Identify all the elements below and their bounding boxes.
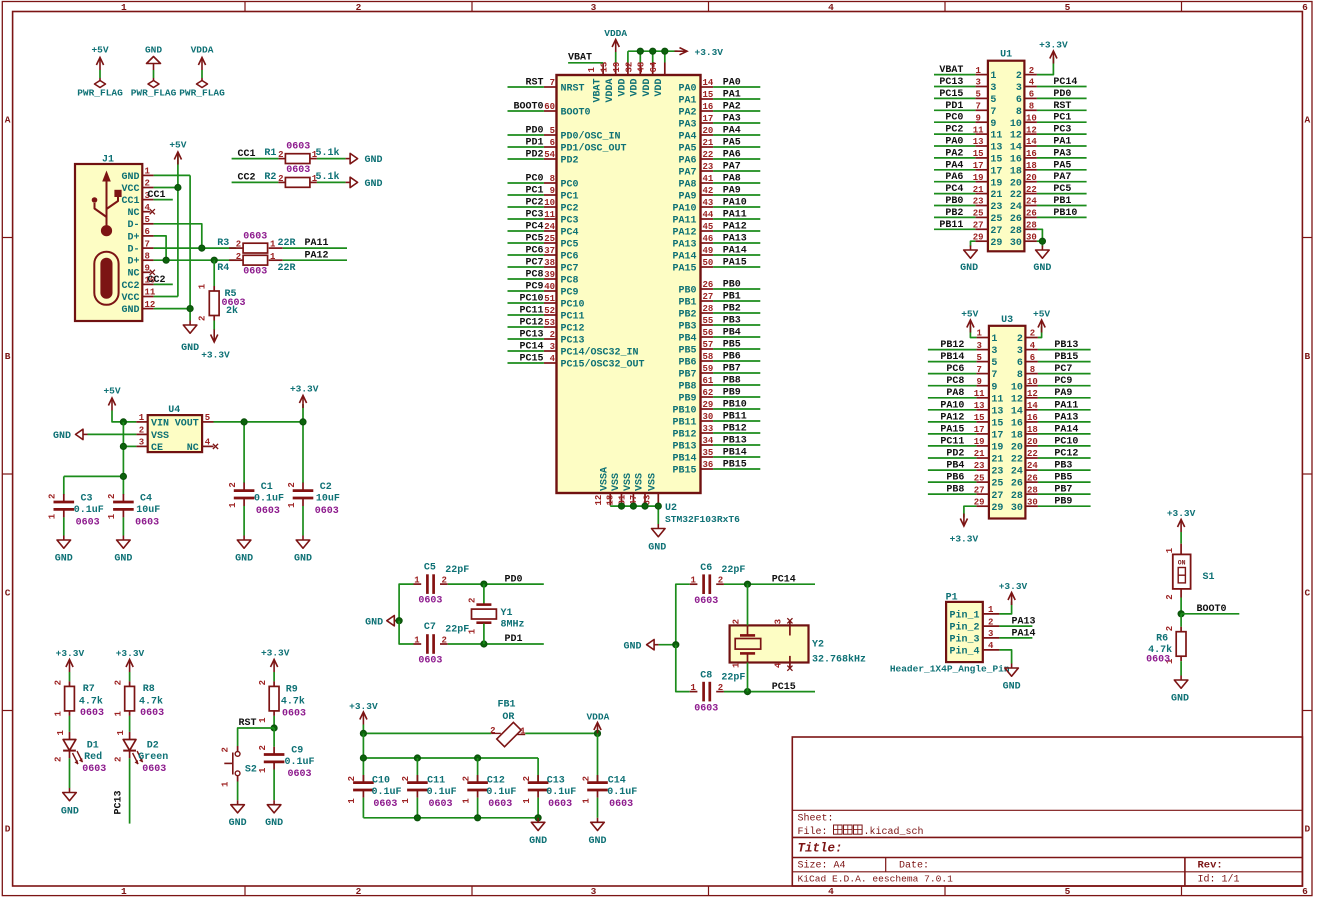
svg-text:1: 1 <box>461 798 471 804</box>
svg-text:10uF: 10uF <box>316 494 340 505</box>
wire PB12 <box>713 432 760 434</box>
svg-text:B: B <box>1304 351 1310 362</box>
svg-text:CC2: CC2 <box>121 281 139 292</box>
svg-text:2: 2 <box>468 598 478 603</box>
svg-text:0603: 0603 <box>80 708 104 719</box>
svg-text:1: 1 <box>56 730 66 736</box>
svg-text:VIN: VIN <box>151 418 169 429</box>
junction PD1 Y1 <box>481 641 487 647</box>
junction rail3 C12 <box>475 815 481 821</box>
svg-text:OR: OR <box>502 712 514 723</box>
wire C6 left to GND rail <box>676 584 690 645</box>
svg-text:GND: GND <box>1171 694 1189 705</box>
svg-text:2: 2 <box>718 576 723 586</box>
ground below C13 <box>529 818 547 847</box>
wire PC10 to U3 <box>1038 445 1091 447</box>
resistor R3 22R <box>217 232 295 253</box>
connector U1 <box>988 50 1025 252</box>
svg-text:PC14: PC14 <box>1053 77 1077 88</box>
svg-text:+3.3V: +3.3V <box>116 648 145 659</box>
U1 row 1 pins 1/2 <box>975 66 1037 82</box>
svg-text:VOUT: VOUT <box>175 418 199 429</box>
svg-text:9: 9 <box>991 382 997 393</box>
svg-text:R2: R2 <box>264 172 276 183</box>
wire PC13 to U1 <box>934 86 975 88</box>
wire PB9 to U3 <box>1038 505 1091 507</box>
svg-text:PA10: PA10 <box>672 204 696 215</box>
svg-text:PB2: PB2 <box>945 208 963 219</box>
svg-text:PC2: PC2 <box>561 204 579 215</box>
svg-text:3: 3 <box>1017 346 1023 357</box>
wire PA7 <box>713 170 760 172</box>
svg-text:10uF: 10uF <box>136 505 160 516</box>
ground below U2 <box>648 524 666 554</box>
U2 pin 5 (PD0/OSC_IN) <box>544 126 621 142</box>
svg-text:1: 1 <box>121 2 127 13</box>
U2 pin 27 (PB1) <box>678 292 713 308</box>
svg-text:22: 22 <box>703 150 714 160</box>
svg-text:S1: S1 <box>1203 572 1215 583</box>
wire RST to U2 <box>508 86 544 88</box>
capacitor C3 0.1uF <box>48 493 104 528</box>
wire PC15 to U1 <box>934 97 975 99</box>
junction D- row <box>199 245 205 251</box>
svg-text:0603: 0603 <box>286 141 310 152</box>
svg-text:PB9: PB9 <box>678 394 696 405</box>
svg-text:19: 19 <box>990 178 1002 189</box>
svg-text:PWR_FLAG: PWR_FLAG <box>131 88 177 99</box>
svg-text:18: 18 <box>1026 161 1037 171</box>
svg-text:4.7k: 4.7k <box>281 696 305 708</box>
wire GND arrow to junction <box>659 644 676 646</box>
power +3.3V at U1 <box>1039 40 1068 64</box>
U2 pin 60 (BOOT0) <box>544 102 591 118</box>
wire PD2 to U2 <box>508 158 544 160</box>
U2 pin 49 (PA14) <box>672 246 713 262</box>
svg-text:5: 5 <box>991 358 997 369</box>
wire S1 to BOOT0 junction <box>1180 598 1182 614</box>
U2 pin 55 (PB3) <box>678 316 713 332</box>
svg-text:+3.3V: +3.3V <box>999 581 1028 592</box>
svg-text:PB12: PB12 <box>940 340 964 351</box>
svg-text:C7: C7 <box>424 622 436 633</box>
svg-text:D2: D2 <box>147 740 159 751</box>
svg-text:9: 9 <box>145 264 150 274</box>
wire C6 to PC14 <box>724 583 815 585</box>
svg-text:GND: GND <box>960 263 978 274</box>
svg-text:7: 7 <box>976 365 981 375</box>
svg-text:VDDA: VDDA <box>605 79 616 103</box>
ground below D1 <box>61 788 79 818</box>
svg-text:2: 2 <box>988 617 993 627</box>
svg-text:1: 1 <box>347 798 357 804</box>
svg-text:1: 1 <box>731 662 741 668</box>
svg-text:26: 26 <box>703 280 714 290</box>
svg-text:1: 1 <box>990 71 996 82</box>
svg-text:CC1: CC1 <box>121 196 139 207</box>
svg-text:2: 2 <box>1030 329 1035 339</box>
junction VDD 32 <box>637 48 643 54</box>
U1 row 5 pins 9/10 <box>975 113 1037 129</box>
wire top rail to FB1 <box>363 732 491 734</box>
svg-text:PA14: PA14 <box>1054 424 1078 435</box>
wire PA11 <box>713 218 760 220</box>
U2 top pin 19 (VDD) <box>612 62 628 97</box>
U3 row 3 pins 5/6 <box>976 353 1038 369</box>
svg-text:20: 20 <box>1027 437 1038 447</box>
wire PB7 <box>713 372 760 374</box>
capacitor C5 22pF <box>414 562 470 606</box>
svg-text:CC1: CC1 <box>238 149 256 160</box>
wire PC6 to U3 <box>928 373 977 375</box>
U2 pin 41 (PA8) <box>678 174 713 190</box>
svg-text:4: 4 <box>205 438 211 448</box>
svg-text:PA8: PA8 <box>678 180 696 191</box>
U2 pin 33 (PB12) <box>672 424 713 440</box>
wire bottom rail <box>363 798 538 818</box>
U1 row 8 pins 15/16 <box>973 149 1037 165</box>
svg-text:27: 27 <box>991 491 1003 502</box>
svg-text:PA2: PA2 <box>678 108 696 119</box>
wire PC1 to U2 <box>508 194 544 196</box>
power +3.3V above R9 <box>261 648 290 673</box>
svg-text:PA11: PA11 <box>1054 400 1078 411</box>
junction U4 VIN branch <box>120 419 126 425</box>
svg-text:PB5: PB5 <box>678 346 696 357</box>
svg-text:VSS: VSS <box>611 473 622 491</box>
svg-text:2: 2 <box>401 776 411 781</box>
svg-text:GND: GND <box>53 431 71 442</box>
svg-text:14: 14 <box>1027 401 1038 411</box>
ground below U1 left <box>960 246 978 275</box>
svg-text:2: 2 <box>581 776 591 781</box>
svg-text:29: 29 <box>991 503 1003 514</box>
svg-text:3: 3 <box>1016 83 1022 94</box>
svg-text:R8: R8 <box>143 684 155 695</box>
wire PA11 to U3 <box>1038 409 1091 411</box>
svg-text:46: 46 <box>703 234 714 244</box>
svg-text:34: 34 <box>703 436 714 446</box>
svg-text:20: 20 <box>703 126 714 136</box>
wire PD1 to U1 <box>934 109 975 111</box>
wire C14 to GND <box>597 798 599 818</box>
svg-text:21: 21 <box>703 138 714 148</box>
wire C11 C12 top leads <box>417 758 477 783</box>
svg-text:PC9: PC9 <box>525 282 543 293</box>
svg-text:2: 2 <box>107 494 117 499</box>
svg-text:PC13: PC13 <box>561 336 585 347</box>
svg-text:PC8: PC8 <box>946 376 964 387</box>
svg-text:Size: A4: Size: A4 <box>798 859 846 871</box>
svg-text:1: 1 <box>48 513 58 519</box>
U2 pin 44 (PA11) <box>672 210 713 226</box>
svg-text:PB10: PB10 <box>723 400 747 411</box>
junction C2 top <box>300 419 306 425</box>
svg-text:PB14: PB14 <box>672 454 696 465</box>
svg-text:PB12: PB12 <box>723 424 747 435</box>
svg-text:ON: ON <box>1178 559 1186 566</box>
svg-text:10: 10 <box>1026 113 1037 123</box>
svg-text:8MHz: 8MHz <box>501 620 525 631</box>
svg-text:PB6: PB6 <box>723 352 741 363</box>
svg-text:0603: 0603 <box>243 232 267 243</box>
junction PC14 Y2 <box>744 581 750 587</box>
svg-text:PB7: PB7 <box>723 364 741 375</box>
svg-text:CE: CE <box>151 443 163 454</box>
wire PA1 <box>713 98 760 100</box>
wire PC1 to U1 <box>1037 121 1087 123</box>
wire PA2 to U1 <box>934 157 975 159</box>
svg-text:12: 12 <box>1011 394 1023 405</box>
svg-text:PC10: PC10 <box>1054 436 1078 447</box>
svg-text:PA15: PA15 <box>672 264 696 275</box>
svg-text:7: 7 <box>145 239 150 249</box>
svg-text:PB13: PB13 <box>672 442 696 453</box>
svg-text:BOOT0: BOOT0 <box>561 108 591 119</box>
svg-text:3: 3 <box>139 438 144 448</box>
svg-text:7: 7 <box>991 370 997 381</box>
svg-text:PB13: PB13 <box>723 436 747 447</box>
svg-text:VCC: VCC <box>121 184 139 195</box>
svg-text:20: 20 <box>1011 443 1023 454</box>
svg-text:+5V: +5V <box>103 386 120 397</box>
svg-text:16: 16 <box>703 102 714 112</box>
U2 pin 29 (PB10) <box>672 400 713 416</box>
U2 top pin 32 (VDD) <box>624 62 640 97</box>
U2 pin 54 (PD2) <box>544 150 579 166</box>
svg-text:PC14/OSC32_IN: PC14/OSC32_IN <box>561 347 639 359</box>
wire J1 GND rail (line B) <box>154 175 191 320</box>
svg-text:9: 9 <box>976 377 981 387</box>
U2 pin 9 (PC1) <box>544 186 579 202</box>
svg-text:VSS: VSS <box>623 473 634 491</box>
power +3.3V below R5 <box>201 330 230 361</box>
U2 pin 42 (PA9) <box>678 186 713 202</box>
svg-text:5: 5 <box>550 126 555 136</box>
svg-text:0603: 0603 <box>694 703 718 714</box>
svg-text:CC2: CC2 <box>148 275 166 286</box>
svg-text:0.1uF: 0.1uF <box>284 757 314 768</box>
power +3.3V below U3 <box>950 514 979 545</box>
wire PA12 to U3 <box>928 421 977 423</box>
ground below P1 <box>1003 664 1021 693</box>
wire PC0 to U1 <box>934 121 975 123</box>
svg-text:PC7: PC7 <box>525 258 543 269</box>
resistor R5 2k <box>198 283 246 321</box>
junction RST <box>271 725 277 731</box>
svg-text:PA14: PA14 <box>672 252 696 263</box>
svg-text:6: 6 <box>1030 353 1035 363</box>
svg-text:PD2: PD2 <box>525 150 543 161</box>
wire PA14 to U3 <box>1038 433 1091 435</box>
svg-text:PC4: PC4 <box>945 184 963 195</box>
title block frame <box>792 737 1302 886</box>
svg-text:PC15: PC15 <box>519 354 543 365</box>
svg-text:Title:: Title: <box>798 842 843 856</box>
svg-text:8: 8 <box>1029 102 1034 112</box>
U3 row 12 pins 23/24 <box>974 461 1039 478</box>
svg-text:25: 25 <box>544 234 555 244</box>
svg-text:PD0/OSC_IN: PD0/OSC_IN <box>561 131 621 143</box>
svg-text:0603: 0603 <box>418 596 442 607</box>
svg-text:30: 30 <box>703 412 714 422</box>
svg-text:NC: NC <box>187 443 199 454</box>
wire PB13 <box>713 444 760 446</box>
svg-text:59: 59 <box>703 364 714 374</box>
svg-text:2: 2 <box>258 680 268 685</box>
svg-text:NC: NC <box>127 208 139 219</box>
svg-text:PC1: PC1 <box>525 186 543 197</box>
U3 row 7 pins 13/14 <box>974 401 1039 417</box>
svg-text:18: 18 <box>1011 431 1023 442</box>
svg-text:1: 1 <box>258 767 268 773</box>
wire PB0 to U1 <box>934 205 975 207</box>
svg-text:1: 1 <box>988 605 994 615</box>
svg-text:GND: GND <box>121 305 139 316</box>
svg-text:41: 41 <box>703 174 714 184</box>
U2 pin 7 (NRST) <box>544 78 585 94</box>
J1 pin 6 (D+) <box>127 227 153 243</box>
ground at J1 <box>181 321 199 355</box>
svg-text:PD1/OSC_OUT: PD1/OSC_OUT <box>561 143 627 155</box>
svg-text:PD1: PD1 <box>525 138 543 149</box>
svg-text:VDDA: VDDA <box>586 712 609 723</box>
svg-text:7: 7 <box>975 102 980 112</box>
wire PC4 to U2 <box>508 230 544 232</box>
svg-text:+3.3V: +3.3V <box>261 648 290 659</box>
svg-text:16: 16 <box>1026 149 1037 159</box>
svg-text:1: 1 <box>975 66 981 76</box>
svg-text:28: 28 <box>1011 491 1023 502</box>
capacitor C7 22pF <box>414 622 470 666</box>
junction top rail C10 <box>360 730 366 736</box>
svg-text:PB4: PB4 <box>678 334 696 345</box>
U3 row 14 pins 27/28 <box>974 485 1038 502</box>
svg-text:2: 2 <box>356 886 362 897</box>
svg-text:CC1: CC1 <box>148 190 166 201</box>
connector U3 <box>989 315 1026 519</box>
svg-text:C12: C12 <box>487 775 505 786</box>
svg-text:1: 1 <box>198 283 208 289</box>
svg-text:PB2: PB2 <box>678 310 696 321</box>
svg-text:11: 11 <box>990 131 1002 142</box>
svg-text:PA4: PA4 <box>945 160 963 171</box>
svg-text:NRST: NRST <box>561 84 585 95</box>
U2 pin 21 (PA5) <box>678 138 713 154</box>
wire R7 to D1 <box>69 716 71 732</box>
svg-text:GND: GND <box>588 836 606 847</box>
svg-text:7: 7 <box>990 107 996 118</box>
U2 pin 36 (PB15) <box>672 460 713 476</box>
wire U3 pin29 to +3.3V <box>964 506 977 517</box>
svg-text:22: 22 <box>1011 455 1023 466</box>
svg-text:+5V: +5V <box>961 309 978 320</box>
svg-text:2: 2 <box>442 636 447 646</box>
wire C7 to PD1 <box>448 643 544 645</box>
U2 pin 14 (PA0) <box>678 78 713 94</box>
junction D+ R5 branch <box>211 257 217 263</box>
svg-text:R9: R9 <box>286 685 298 696</box>
svg-text:PC9: PC9 <box>1054 376 1072 387</box>
svg-text:10: 10 <box>1027 377 1038 387</box>
svg-text:PA3: PA3 <box>1053 148 1071 159</box>
wire C4 to GND <box>122 517 124 535</box>
wire PC5 to U1 <box>1037 193 1087 195</box>
capacitor C10 0.1uF <box>347 775 401 810</box>
svg-text:GND: GND <box>623 641 641 652</box>
svg-text:C14: C14 <box>608 775 626 786</box>
svg-text:VSS: VSS <box>634 473 645 491</box>
svg-text:C4: C4 <box>140 493 152 504</box>
svg-text:R1: R1 <box>264 148 276 159</box>
svg-text:GND: GND <box>229 818 247 829</box>
U2 pin 37 (PC6) <box>544 246 579 262</box>
svg-text:43: 43 <box>703 198 714 208</box>
svg-text:23: 23 <box>703 162 714 172</box>
svg-text:56: 56 <box>703 328 714 338</box>
wire RST to S2 <box>238 728 275 746</box>
svg-text:PA11: PA11 <box>672 216 696 227</box>
svg-text:2: 2 <box>1165 626 1175 631</box>
svg-text:1: 1 <box>139 413 145 423</box>
power +5V at U3 left <box>961 309 978 333</box>
ground below C1 <box>235 536 253 565</box>
svg-text:GND: GND <box>1003 682 1021 693</box>
U2 pin 59 (PB7) <box>678 364 713 380</box>
ground below C3 <box>55 536 73 565</box>
svg-text:D-: D- <box>127 220 139 231</box>
svg-text:8: 8 <box>1016 107 1022 118</box>
svg-text:1: 1 <box>1165 547 1175 553</box>
connector J1 (USB) <box>75 155 142 322</box>
svg-text:28: 28 <box>1027 485 1038 495</box>
svg-text:39: 39 <box>544 270 555 280</box>
svg-text:PA1: PA1 <box>678 96 696 107</box>
svg-text:PD0: PD0 <box>525 126 543 137</box>
svg-text:0.1uF: 0.1uF <box>371 787 401 798</box>
svg-text:GND: GND <box>145 45 162 56</box>
svg-text:0603: 0603 <box>609 799 633 810</box>
svg-text:27: 27 <box>990 226 1002 237</box>
wire PA3 to U1 <box>1037 157 1087 159</box>
svg-text:BOOT0: BOOT0 <box>513 102 543 113</box>
junction VDD 48 <box>650 48 656 54</box>
MCU U2 STM32F103RxT6 body <box>557 75 701 493</box>
svg-text:VDDA: VDDA <box>191 45 214 56</box>
svg-text:9: 9 <box>550 186 555 196</box>
wire PB5 <box>713 348 760 350</box>
svg-text:C6: C6 <box>700 563 712 574</box>
svg-text:Green: Green <box>138 752 168 763</box>
wire PB2 to U1 <box>934 216 975 218</box>
wire D2 to PC13 <box>129 758 131 823</box>
svg-text:23: 23 <box>991 467 1003 478</box>
svg-text:PC13: PC13 <box>939 77 963 88</box>
svg-text:PWR_FLAG: PWR_FLAG <box>77 88 123 99</box>
svg-text:0603: 0603 <box>694 596 718 607</box>
capacitor C12 0.1uF <box>461 775 516 810</box>
power VDDA at U2 pin13 <box>604 28 627 63</box>
wire PC3 to U2 <box>508 218 544 220</box>
junction rail2 C10 <box>360 755 366 761</box>
svg-text:27: 27 <box>703 292 714 302</box>
svg-text:+3.3V: +3.3V <box>695 47 724 58</box>
wire U3 pin1 to +5V <box>970 327 976 338</box>
U3 row 8 pins 15/16 <box>974 413 1038 429</box>
J1 pin 4 (NC) <box>127 203 154 219</box>
svg-text:GND: GND <box>121 172 139 183</box>
svg-text:17: 17 <box>703 114 714 124</box>
